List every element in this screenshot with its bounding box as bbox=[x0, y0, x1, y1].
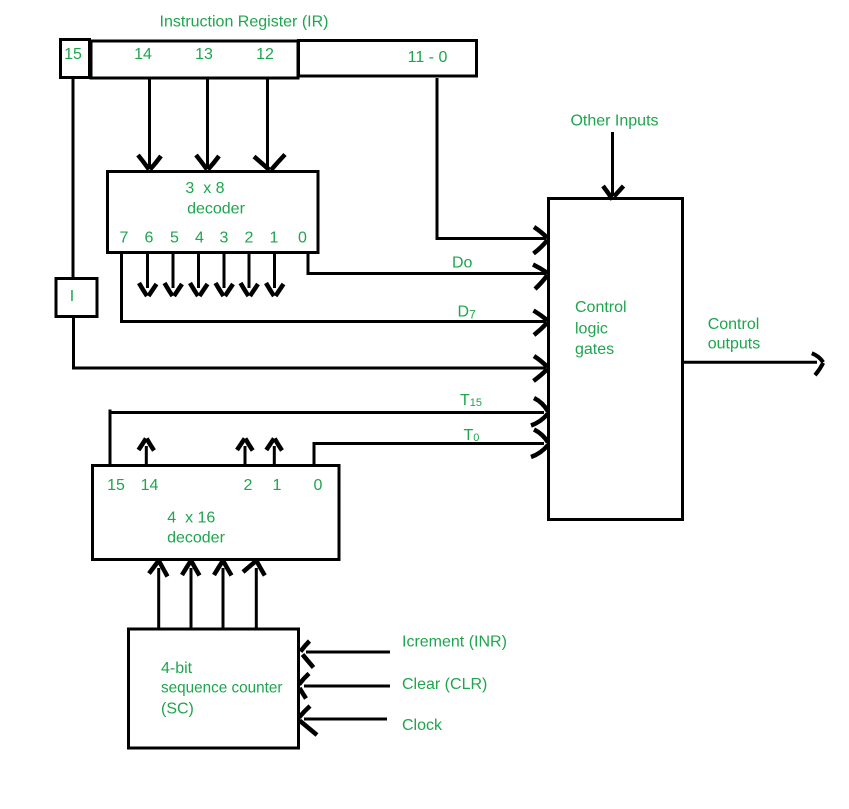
arrowhead SC d bbox=[243, 561, 265, 576]
svg-text:14: 14 bbox=[141, 477, 159, 494]
wire decoder out 4 stub bbox=[223, 253, 226, 288]
register IR cells 14-12 bbox=[91, 41, 298, 78]
wire SC to decoder b bbox=[190, 568, 193, 628]
wire INR bbox=[306, 651, 390, 654]
svg-text:2: 2 bbox=[245, 230, 254, 247]
arrowhead bit14 bbox=[138, 155, 161, 170]
wire control outputs bbox=[683, 361, 817, 364]
svg-text:T0: T0 bbox=[464, 427, 480, 444]
svg-text:12: 12 bbox=[256, 46, 274, 63]
svg-text:Do: Do bbox=[452, 255, 473, 272]
svg-text:Icrement (INR): Icrement (INR) bbox=[402, 634, 507, 651]
wire SC to decoder c bbox=[222, 568, 225, 628]
svg-text:15: 15 bbox=[64, 46, 82, 63]
svg-text:3 x 8: 3 x 8 bbox=[185, 180, 224, 197]
svg-text:Other Inputs: Other Inputs bbox=[570, 113, 658, 130]
wire SC to decoder a bbox=[157, 568, 160, 628]
arrowhead out5 bbox=[190, 283, 208, 296]
register IR cell 15 bbox=[61, 40, 90, 78]
wire bit12 to decoder bbox=[266, 79, 269, 168]
svg-text:3: 3 bbox=[220, 230, 229, 247]
arrowhead control outputs bbox=[812, 353, 823, 375]
svg-text:Clock: Clock bbox=[402, 717, 443, 734]
svg-text:D7: D7 bbox=[458, 304, 477, 322]
svg-text:15: 15 bbox=[107, 477, 125, 494]
svg-text:4 x 16: 4 x 16 bbox=[167, 510, 215, 527]
arrowhead CLR bbox=[299, 674, 309, 699]
svg-text:I: I bbox=[70, 288, 74, 305]
svg-text:2: 2 bbox=[244, 477, 253, 494]
arrowhead T15 into control bbox=[531, 398, 548, 426]
wire T0 bbox=[314, 444, 544, 466]
sequence counter box bbox=[129, 629, 299, 748]
svg-text:outputs: outputs bbox=[708, 336, 760, 353]
arrowhead out4 bbox=[216, 283, 234, 296]
wire D7 bbox=[122, 253, 547, 322]
wire 4x16 up 1 bbox=[273, 446, 276, 465]
wire other inputs bbox=[611, 132, 614, 196]
arrowhead SC a bbox=[149, 561, 168, 577]
svg-text:7: 7 bbox=[120, 230, 129, 247]
arrowhead 4x16 up 1 bbox=[266, 439, 282, 451]
wire T15 bbox=[110, 410, 544, 467]
svg-text:Clear (CLR): Clear (CLR) bbox=[402, 676, 487, 693]
wire bit14 to decoder bbox=[148, 79, 151, 168]
svg-text:1: 1 bbox=[273, 477, 282, 494]
arrowhead out2 bbox=[266, 283, 284, 296]
arrowhead 11-0 into control bbox=[534, 227, 548, 254]
arrowhead 4x16 up 2 bbox=[237, 439, 253, 451]
svg-text:decoder: decoder bbox=[187, 201, 245, 218]
svg-text:0: 0 bbox=[298, 230, 307, 247]
control logic gates box bbox=[549, 199, 683, 520]
wire SC to decoder d bbox=[255, 568, 258, 628]
arrowhead T0 into control bbox=[531, 430, 548, 458]
wire I to control bbox=[74, 317, 547, 368]
arrowhead SC b bbox=[182, 561, 200, 576]
arrowhead out7 bbox=[139, 283, 157, 296]
svg-text:11 - 0: 11 - 0 bbox=[408, 49, 448, 66]
arrowhead D7 into control bbox=[534, 311, 548, 336]
wire decoder out 3 stub bbox=[248, 253, 251, 288]
svg-text:4-bit: 4-bit bbox=[161, 660, 193, 677]
svg-text:1: 1 bbox=[270, 230, 279, 247]
wire decoder out 5 stub bbox=[197, 253, 200, 288]
svg-text:sequence counter: sequence counter bbox=[161, 680, 283, 697]
wire 11-0 to control bbox=[437, 78, 546, 239]
svg-text:13: 13 bbox=[195, 46, 213, 63]
svg-text:14: 14 bbox=[134, 46, 152, 63]
arrowhead INR bbox=[301, 641, 314, 668]
arrowhead bit12 bbox=[254, 155, 285, 171]
wire D0 bbox=[308, 253, 546, 274]
arrowhead I into control bbox=[534, 356, 548, 381]
decoder 3x8 box bbox=[108, 172, 319, 253]
wire decoder out 2 stub bbox=[273, 253, 276, 288]
svg-text:T15: T15 bbox=[460, 392, 482, 409]
wire decoder out 7 stub bbox=[146, 253, 149, 288]
arrowhead SC c bbox=[214, 561, 232, 576]
svg-text:6: 6 bbox=[145, 230, 154, 247]
svg-text:gates: gates bbox=[575, 341, 614, 358]
wire bit13 to decoder bbox=[206, 79, 209, 168]
svg-text:5: 5 bbox=[170, 230, 179, 247]
arrowhead D0 into control bbox=[533, 265, 548, 290]
svg-text:4: 4 bbox=[195, 230, 204, 247]
arrowhead out3 bbox=[241, 283, 259, 296]
arrowhead other inputs bbox=[603, 186, 624, 200]
svg-text:0: 0 bbox=[314, 477, 323, 494]
svg-text:Control: Control bbox=[575, 299, 627, 316]
arrowhead bit13 bbox=[196, 155, 219, 170]
wire CLR bbox=[304, 685, 390, 688]
svg-text:Instruction Register (IR): Instruction Register (IR) bbox=[160, 14, 329, 31]
svg-text:(SC): (SC) bbox=[161, 701, 194, 718]
flipflop I box bbox=[56, 279, 97, 317]
arrowhead Clock bbox=[299, 706, 317, 735]
svg-text:logic: logic bbox=[575, 321, 608, 338]
wire 4x16 up 2 bbox=[244, 446, 247, 465]
decoder 4x16 box bbox=[93, 466, 340, 560]
wire decoder out 6 stub bbox=[172, 253, 175, 288]
svg-text:decoder: decoder bbox=[167, 530, 225, 547]
arrowhead out6 bbox=[165, 283, 183, 296]
wire Clock bbox=[304, 718, 387, 721]
arrowhead 4x16 up 14 bbox=[139, 439, 155, 451]
wire 15 to I bbox=[72, 77, 75, 279]
register IR cell 11-0 bbox=[299, 41, 477, 77]
wire 4x16 up 14 bbox=[145, 446, 148, 465]
svg-text:Control: Control bbox=[708, 316, 760, 333]
